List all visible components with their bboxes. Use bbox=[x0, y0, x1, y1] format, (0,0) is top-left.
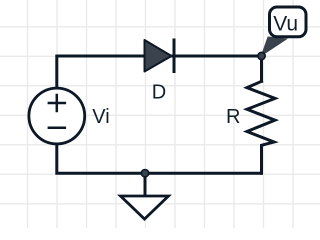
svg-text:R: R bbox=[226, 106, 240, 128]
svg-text:D: D bbox=[152, 82, 166, 104]
svg-text:Vi: Vi bbox=[92, 106, 109, 128]
svg-text:Vu: Vu bbox=[273, 13, 298, 36]
